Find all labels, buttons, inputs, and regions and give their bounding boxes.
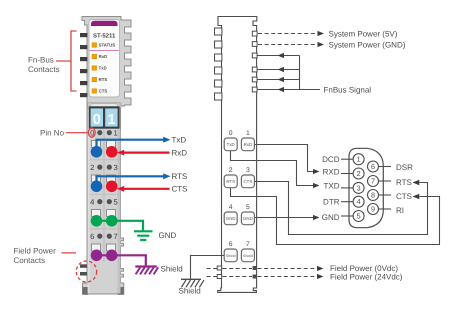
svg-text:5: 5 <box>246 204 250 211</box>
svg-text:RTS: RTS <box>226 179 235 184</box>
svg-text:7: 7 <box>246 241 250 248</box>
svg-text:6: 6 <box>90 232 94 241</box>
svg-text:2: 2 <box>229 167 233 174</box>
svg-text:5: 5 <box>113 197 117 206</box>
svg-text:Contacts: Contacts <box>28 65 60 74</box>
svg-text:GND: GND <box>243 216 253 221</box>
svg-text:RTS: RTS <box>99 77 108 82</box>
svg-text:TxD: TxD <box>227 142 235 147</box>
svg-text:6: 6 <box>229 241 233 248</box>
svg-text:DSR: DSR <box>396 163 413 172</box>
svg-text:GND: GND <box>159 231 177 240</box>
svg-text:RTS: RTS <box>172 172 188 181</box>
svg-text:CTS: CTS <box>244 179 253 184</box>
svg-text:ST-5211: ST-5211 <box>93 32 116 39</box>
svg-text:8: 8 <box>371 190 375 199</box>
svg-text:3: 3 <box>357 183 361 192</box>
svg-text:RTS: RTS <box>396 178 412 187</box>
svg-text:System Power (5V): System Power (5V) <box>329 29 398 38</box>
svg-text:Shield: Shield <box>179 286 201 295</box>
svg-text:DTR: DTR <box>323 197 340 206</box>
svg-text:STATUS: STATUS <box>99 43 116 48</box>
svg-text:3: 3 <box>246 167 250 174</box>
svg-text:0: 0 <box>93 112 101 128</box>
svg-text:TxD: TxD <box>172 136 187 145</box>
svg-text:9: 9 <box>371 204 375 213</box>
svg-text:Fn-Bus: Fn-Bus <box>28 55 54 64</box>
svg-text:Shield: Shield <box>226 254 236 258</box>
svg-text:Field Power: Field Power <box>14 246 57 255</box>
svg-text:5: 5 <box>357 211 361 220</box>
svg-text:RXD: RXD <box>323 167 340 176</box>
svg-text:1: 1 <box>113 128 117 137</box>
svg-text:Contacts: Contacts <box>14 256 46 265</box>
svg-text:DCD: DCD <box>322 155 340 164</box>
svg-text:System Power (GND): System Power (GND) <box>329 40 406 49</box>
svg-text:GND: GND <box>226 216 236 221</box>
svg-text:CTS: CTS <box>396 192 412 201</box>
svg-text:7: 7 <box>371 176 375 185</box>
svg-text:4: 4 <box>90 197 94 206</box>
svg-text:TXD: TXD <box>324 181 340 190</box>
svg-text:RxD: RxD <box>99 54 108 59</box>
svg-text:GND: GND <box>322 213 340 222</box>
svg-text:4: 4 <box>357 197 361 206</box>
svg-text:Field Power (24Vdc): Field Power (24Vdc) <box>330 272 403 281</box>
svg-text:RxD: RxD <box>172 148 188 157</box>
svg-text:CTS: CTS <box>172 185 188 194</box>
svg-text:RxD: RxD <box>244 142 253 147</box>
svg-text:1: 1 <box>246 130 250 137</box>
svg-text:RI: RI <box>396 206 404 215</box>
svg-text:2: 2 <box>357 169 361 178</box>
svg-text:1: 1 <box>107 112 115 128</box>
svg-text:FnBus Signal: FnBus Signal <box>324 85 372 94</box>
svg-text:TxD: TxD <box>99 66 107 71</box>
svg-text:3: 3 <box>113 163 117 172</box>
svg-text:4: 4 <box>229 204 233 211</box>
svg-text:1: 1 <box>357 155 361 164</box>
svg-text:Shield: Shield <box>161 264 183 273</box>
svg-text:0: 0 <box>229 130 233 137</box>
svg-text:Pin No: Pin No <box>40 128 65 137</box>
svg-text:7: 7 <box>113 232 117 241</box>
svg-text:6: 6 <box>371 162 375 171</box>
svg-text:2: 2 <box>90 163 94 172</box>
svg-text:CTS: CTS <box>99 89 108 94</box>
svg-text:Shield: Shield <box>243 254 253 258</box>
